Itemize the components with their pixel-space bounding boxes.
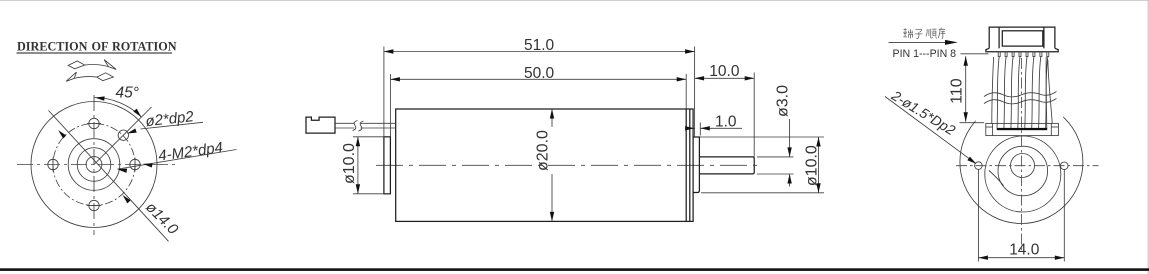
lead wire 2 bbox=[335, 127, 396, 129]
dim dia10 left top extension bbox=[353, 136, 391, 138]
motor body rectangle bbox=[396, 109, 693, 221]
rear vertical centerline bbox=[1021, 58, 1023, 252]
hole E tick bbox=[134, 158, 136, 172]
grommet left tab line bbox=[986, 126, 993, 128]
leader underline for 4-M2 label bbox=[118, 150, 237, 170]
arc arrow left bbox=[95, 95, 105, 100]
title underline bbox=[17, 52, 173, 54]
dim dia10 right top extension bbox=[700, 136, 824, 138]
boss circle r17 bbox=[77, 148, 111, 182]
grommet inner wall right bbox=[1050, 123, 1052, 135]
dim 50.0 line bbox=[390, 78, 686, 80]
rear hole E bbox=[1060, 162, 1068, 170]
leader line for 2-dia1.5 bbox=[885, 97, 972, 161]
dim 10.0 right extension bbox=[753, 73, 755, 174]
cable grommet outline bbox=[986, 123, 1059, 135]
dim 1.0 line bbox=[700, 127, 742, 129]
dim 110 bottom extension bbox=[960, 122, 985, 124]
svg-text:PIN 1---PIN 8: PIN 1---PIN 8 bbox=[893, 48, 957, 60]
dim 51.0 right extension bbox=[694, 47, 696, 138]
rear shaft hole bbox=[1011, 154, 1035, 178]
hole W bbox=[48, 159, 58, 169]
svg-text:51.0: 51.0 bbox=[524, 37, 555, 54]
45 degree dimension arc bbox=[94, 97, 141, 117]
hole N bbox=[89, 118, 99, 128]
dim dia10 right bottom extension bbox=[701, 192, 824, 194]
dim dia20 line bbox=[551, 109, 553, 127]
leader curved tail bbox=[989, 171, 1004, 186]
rotation arrow bottom (CCW) bbox=[66, 72, 113, 81]
output shaft dia3 bbox=[699, 157, 754, 174]
connector pins bbox=[998, 52, 1049, 57]
rear boss circle r38 bbox=[985, 136, 1061, 212]
hole N tick bbox=[87, 123, 101, 125]
dim 50.0 right extension bbox=[685, 74, 687, 109]
dim 51.0 line bbox=[384, 51, 695, 53]
svg-text:14.0: 14.0 bbox=[1009, 242, 1040, 259]
front collar bbox=[693, 137, 699, 193]
sheet right border bbox=[1148, 0, 1149, 274]
svg-text:110: 110 bbox=[949, 78, 966, 104]
ribbon cable wires bbox=[992, 57, 1052, 129]
hole NE at 45deg bbox=[118, 130, 128, 140]
dim dia3 bottom extension bbox=[757, 173, 794, 175]
leader underline for dia2 label bbox=[141, 122, 204, 129]
hole W tick bbox=[52, 158, 54, 172]
rear hole W bbox=[975, 162, 983, 170]
dim 51.0 left extension bbox=[383, 47, 385, 137]
grommet right tab line bbox=[1051, 126, 1058, 128]
dim 1.0 arrows outside bbox=[686, 127, 695, 129]
dim 1.0 right extension bbox=[699, 123, 701, 136]
svg-text:50.0: 50.0 bbox=[524, 65, 555, 82]
dim dia3 vertical line bottom bbox=[789, 174, 791, 187]
outer flange circle bbox=[31, 102, 157, 228]
rear boss circle r25 bbox=[998, 146, 1048, 196]
svg-text:ø20.0: ø20.0 bbox=[535, 130, 552, 171]
svg-text:45°: 45° bbox=[116, 85, 139, 102]
arrow on diagonal lower bbox=[121, 193, 131, 203]
arc arrow right bbox=[133, 109, 143, 119]
bolt circle (dash-dot) bbox=[53, 124, 135, 206]
connector housing top bbox=[986, 27, 1058, 52]
ribbon wave break line 1 bbox=[984, 92, 1057, 97]
dim 14.0 right extension bbox=[1063, 170, 1065, 262]
hole S bbox=[89, 200, 99, 210]
dim 110 line bbox=[965, 56, 967, 122]
grommet inner wall left bbox=[992, 123, 994, 135]
label terminal order (hand-drawn CJK) bbox=[903, 28, 945, 39]
svg-text:ø10.0: ø10.0 bbox=[341, 143, 358, 184]
body right inner line bbox=[689, 109, 691, 221]
45-degree radial centerline to NE hole bbox=[94, 107, 152, 165]
lead wire 1 bbox=[335, 122, 396, 124]
rear horizontal centerline bbox=[956, 165, 1099, 167]
rear bushing bbox=[384, 137, 391, 194]
dim dia10 right line bbox=[818, 137, 820, 193]
wire break squiggle 2 bbox=[359, 121, 364, 131]
ribbon wave break line 2 bbox=[984, 99, 1057, 104]
svg-text:ø3.0: ø3.0 bbox=[774, 85, 791, 117]
arrow on diagonal upper bbox=[57, 129, 67, 139]
grommet white cover bbox=[986, 123, 1059, 135]
rear flange outer circle bbox=[960, 101, 1083, 224]
dim 14.0 line bbox=[978, 257, 1064, 259]
dim dia10 left bottom extension bbox=[353, 193, 391, 195]
motor axis centerline bbox=[376, 164, 762, 166]
sheet bottom border bbox=[0, 268, 1149, 271]
grommet cable slot thick line bbox=[997, 128, 1047, 130]
leader arrow to NE hole bbox=[126, 128, 136, 135]
terminal order arrow bbox=[889, 41, 949, 43]
diagonal leader line NW-SE for dia 14 bbox=[49, 111, 169, 242]
flange vertical centerline bbox=[93, 95, 95, 235]
dim 110 top extension bbox=[961, 53, 989, 55]
hole E bbox=[130, 159, 140, 169]
body right seam line bbox=[685, 109, 687, 221]
shaft hole circle r8 bbox=[86, 157, 102, 173]
flange horizontal centerline bbox=[17, 164, 178, 166]
dim 50.0 left extension bbox=[389, 74, 391, 137]
dim dia3 top extension bbox=[757, 156, 794, 158]
wire break squiggle 1 bbox=[353, 121, 358, 131]
lead wire connector housing bbox=[306, 117, 335, 133]
rotation arrow top (CW) bbox=[68, 60, 116, 70]
svg-text:10.0: 10.0 bbox=[709, 63, 740, 80]
dim 14.0 left extension bbox=[977, 170, 979, 262]
hole S tick bbox=[87, 205, 101, 207]
dim dia3 vertical line top bbox=[789, 119, 791, 157]
dim 10.0 line bbox=[695, 77, 755, 79]
dim dia10 left line bbox=[357, 137, 359, 194]
svg-text:DIRECTION OF ROTATION: DIRECTION OF ROTATION bbox=[17, 40, 177, 54]
leader arrow to E hole bbox=[142, 162, 152, 168]
ribbon white cover bbox=[975, 56, 1065, 123]
boss circle r26 bbox=[68, 139, 120, 191]
svg-text:ø10.0: ø10.0 bbox=[803, 145, 820, 186]
sheet top border bbox=[0, 0, 1149, 1]
